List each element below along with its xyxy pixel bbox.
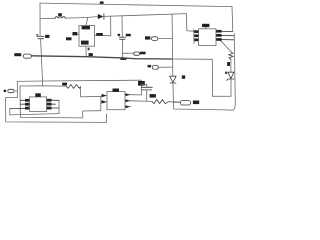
- op-amp U3 right pin labels: [47, 99, 52, 110]
- wire capacitor C1 to ground: [121, 40, 123, 58]
- op-amp U2 top pin label: [202, 24, 209, 29]
- op-amp U3 top label: [35, 93, 41, 97]
- wire zener to node dot: [230, 59, 232, 71]
- wire U4 bottom loop: [20, 111, 101, 118]
- capacitor C1: [119, 37, 126, 39]
- zener Z1: [227, 72, 234, 80]
- wire U2 left pin bus: [193, 29, 195, 44]
- battery BT1: [37, 36, 45, 38]
- wire H2 left drop: [19, 86, 21, 111]
- wire H4 loop: [10, 109, 59, 115]
- wire H1 upper feedback: [17, 80, 141, 81]
- wire ground bus: [31, 56, 172, 59]
- op-amp U3 left pin labels: [25, 99, 29, 110]
- op-amp U4 left pin lower arrow: [102, 100, 108, 103]
- wire capacitor C2 drop: [146, 90, 148, 101]
- op-amp U1 regulator box: [79, 26, 95, 47]
- inductor L1 label: [58, 13, 62, 16]
- op-amp U4 right pin bottom: [125, 105, 131, 108]
- terminal J4 label: [148, 65, 152, 68]
- terminal J2: [151, 37, 172, 41]
- op-amp U3 box: [30, 97, 47, 112]
- op-amp U3 right pins: [47, 100, 59, 108]
- wire node to terminal J5: [173, 101, 180, 103]
- op-amp U3 left pins: [10, 100, 30, 108]
- battery BT1 plus tick: [37, 34, 39, 36]
- wire U1 output pin: [95, 34, 111, 37]
- resistor R1 label: [62, 83, 67, 86]
- wire capacitor C2 top link: [141, 84, 146, 87]
- node ground junction blob: [120, 58, 126, 60]
- op-amp U1 output pin label: [96, 33, 103, 36]
- wire output corner down to U2: [186, 14, 194, 32]
- terminal J3: [123, 52, 146, 56]
- wire H1 right drop: [140, 80, 142, 95]
- wire ground channel right: [212, 59, 231, 96]
- op-amp U1 top label: [82, 26, 90, 29]
- op-amp U4 right pin top: [125, 93, 131, 96]
- op-amp U4 left pin upper arrow: [102, 94, 108, 97]
- op-amp U2 right pin labels: [216, 30, 221, 41]
- wire R2 to terminal J5: [169, 101, 181, 103]
- wire U3 right pin tie: [58, 100, 60, 113]
- wire H2 resistor feed: [20, 85, 66, 87]
- wire battery to ground bus: [40, 39, 43, 56]
- capacitor C1 value label: [126, 34, 131, 37]
- wire battery vertical to lower node: [41, 56, 42, 86]
- diode D2 label: [182, 75, 185, 78]
- capacitor C1 plus label: [118, 34, 121, 36]
- terminal J4: [153, 66, 173, 70]
- wire H5 top stub: [6, 96, 18, 98]
- wire H1 left drop: [16, 81, 18, 91]
- battery BT1 label: [45, 35, 49, 38]
- wire bottom right return: [173, 34, 235, 111]
- wire inductor to diode node: [66, 17, 89, 20]
- wire rail corner down to U2: [231, 7, 234, 32]
- wire inductor feed: [40, 17, 55, 19]
- wire U4 left vertical node: [100, 96, 102, 110]
- wire U4 mid pin to resistor R2: [131, 100, 152, 103]
- wire top positive rail: [40, 3, 232, 7]
- op-amp U2 right pins: [216, 31, 234, 40]
- wire H5 outer loop: [6, 98, 107, 123]
- op-amp U4 top label: [113, 89, 120, 92]
- capacitor C2: [141, 87, 152, 90]
- terminal J5: [180, 100, 199, 105]
- wire left vertical rail to battery: [39, 3, 41, 36]
- op-amp U1 ground pin label: [88, 48, 90, 51]
- op-amp U2 left pin labels: [194, 30, 198, 41]
- terminal J6: [8, 89, 18, 92]
- resistor R2: [152, 100, 169, 104]
- wire resistor R3 to U2 pin: [220, 40, 230, 51]
- wire ground bus right thin: [173, 58, 213, 60]
- op-amp U2 box: [199, 29, 217, 46]
- op-amp U4 right pin mid: [125, 99, 131, 102]
- op-amp U1 reference label: [66, 37, 72, 40]
- wire diode output line: [104, 14, 186, 17]
- terminal J1: [23, 54, 31, 58]
- wire U1 ground pin: [85, 46, 87, 56]
- node rail label tick: [100, 1, 104, 4]
- wire R1 to U4: [81, 87, 101, 97]
- op-amp U1 left pin: [72, 32, 79, 35]
- terminal J6 dot: [4, 90, 7, 93]
- wire U1 input pin: [86, 18, 88, 26]
- wire output branch vertical: [171, 14, 174, 76]
- terminal J2 label: [145, 36, 150, 39]
- node chain label dot: [227, 62, 230, 66]
- capacitor C2 corner label: [138, 81, 145, 86]
- op-amp U2 left pins: [194, 32, 199, 40]
- diode D1: [98, 14, 104, 19]
- resistor R1: [66, 85, 81, 89]
- diode D2: [170, 76, 176, 83]
- resistor R3: [229, 51, 233, 59]
- wire node to diode: [88, 16, 98, 19]
- zener Z1 label tick: [225, 72, 227, 74]
- wire diode D2 to output node: [172, 83, 174, 102]
- wire U4 top right pin link: [131, 94, 142, 96]
- inductor L1: [55, 17, 66, 19]
- op-amp U4 box: [107, 92, 125, 110]
- wire vertical A to U1 out: [110, 16, 112, 36]
- wire vertical B to capacitor C1: [121, 16, 123, 37]
- wire terminal drop: [16, 91, 18, 97]
- node U1 ground junction label: [89, 53, 93, 56]
- terminal J1 label: [14, 53, 21, 56]
- resistor R2 label: [150, 94, 156, 98]
- op-amp U1 bottom label: [81, 41, 89, 45]
